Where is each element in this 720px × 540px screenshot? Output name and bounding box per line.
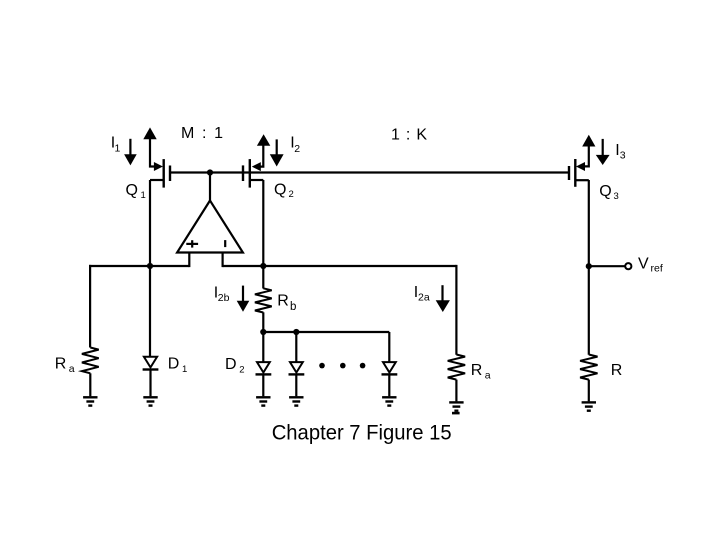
svg-text:1: 1 [141, 190, 146, 201]
svg-text:M : 1: M : 1 [181, 125, 223, 142]
diode D2 [256, 362, 272, 396]
label Q1 [126, 182, 146, 201]
wire gate bus [170, 171, 569, 173]
wire Rb bottom lead [262, 312, 264, 332]
diode D1 [143, 357, 159, 397]
ground for D1 [143, 397, 157, 405]
transistor Q1 [150, 139, 170, 188]
svg-text:2: 2 [294, 143, 300, 155]
svg-text:Q: Q [126, 182, 138, 199]
svg-text:1: 1 [182, 364, 187, 375]
wire Q2 drain drop [262, 180, 264, 289]
diode D2 last [382, 362, 398, 396]
wire node-B horizontal to Ra-right [223, 265, 457, 267]
node gate junction [207, 169, 213, 175]
ground for D2 [256, 397, 270, 405]
stray dash artifact [452, 412, 460, 415]
node Q2 drain junction [260, 263, 266, 269]
ground for D2 second [289, 397, 303, 405]
label I2a [414, 284, 430, 304]
wire Ra-right drop [455, 265, 457, 355]
resistor Rb [255, 288, 272, 312]
label Q2 [274, 182, 294, 201]
svg-text:a: a [485, 369, 491, 381]
current arrow I2b [237, 286, 250, 312]
svg-text:D: D [168, 356, 180, 373]
wire op-amp output to gate node [209, 173, 211, 202]
ground for D2 last [382, 397, 396, 405]
wire Ra-left drop [89, 265, 91, 348]
current arrow I2 [270, 139, 284, 166]
label D1 [168, 356, 187, 375]
svg-text:1: 1 [115, 143, 121, 155]
Q2 source up-arrow [257, 134, 270, 146]
label Ra left [55, 356, 75, 375]
Q1 source up-arrow [143, 127, 156, 139]
current arrow I2a [436, 285, 450, 312]
label Vref [638, 255, 663, 274]
wire node-A horizontal to op-amp + input [89, 265, 189, 267]
svg-text:R: R [277, 292, 289, 309]
wire Q1 drain drop [149, 180, 151, 266]
svg-text:R: R [55, 356, 67, 373]
label Ra right [471, 362, 491, 381]
svg-text:b: b [290, 301, 296, 313]
svg-text:a: a [69, 363, 75, 375]
ground for Ra left [83, 397, 97, 405]
svg-text:ref: ref [651, 263, 663, 275]
svg-text:3: 3 [620, 150, 626, 162]
node Vref junction [586, 263, 592, 269]
ellipsis dots [319, 363, 365, 369]
wire D2' drop [295, 332, 297, 362]
current arrow I1 [124, 139, 137, 166]
node Q1 drain junction [147, 263, 153, 269]
Q3 source up-arrow [582, 135, 595, 147]
svg-text:D: D [225, 356, 237, 373]
label Rb [277, 292, 296, 313]
ground for Ra right [449, 402, 463, 410]
resistor R [580, 355, 597, 402]
svg-text:3: 3 [614, 191, 619, 202]
node Rb bottom junction [260, 329, 266, 335]
svg-text:Q: Q [599, 183, 611, 200]
label I3 [615, 142, 626, 162]
svg-text:V: V [638, 255, 649, 272]
wire Vref stub [589, 265, 625, 267]
svg-text:Q: Q [274, 182, 286, 199]
diode D2 second [289, 362, 305, 396]
wire D2'' drop [388, 332, 390, 362]
label I2 [290, 135, 300, 155]
label I2b [214, 285, 230, 304]
current arrow I3 [596, 139, 610, 165]
resistor Ra (left) [82, 348, 99, 397]
op-amp U1 [177, 201, 243, 253]
wire op-amp + input lead [188, 253, 190, 268]
wire diode bus [263, 331, 389, 333]
svg-text:Chapter 7 Figure 15: Chapter 7 Figure 15 [272, 421, 452, 444]
wire Q3 drain drop [588, 180, 590, 355]
label D2 [225, 356, 244, 375]
svg-text:2b: 2b [218, 292, 230, 304]
svg-text:1 : K: 1 : K [391, 127, 427, 144]
node diode bus junction [293, 329, 299, 335]
svg-text:2: 2 [289, 189, 294, 200]
ground for R [582, 402, 596, 410]
svg-text:2a: 2a [418, 292, 430, 304]
svg-text:R: R [611, 362, 623, 379]
label I1 [111, 135, 121, 155]
svg-text:R: R [471, 362, 483, 379]
resistor Ra (right) [448, 355, 465, 402]
terminal Vref open circle [625, 263, 631, 269]
wire D1 drop [149, 266, 151, 357]
label Q3 [599, 183, 618, 202]
wire op-amp - input lead [222, 253, 224, 268]
transistor Q3 [569, 146, 589, 187]
transistor Q2 [243, 145, 263, 188]
wire D2 drop [262, 332, 264, 362]
svg-text:2: 2 [239, 365, 244, 376]
